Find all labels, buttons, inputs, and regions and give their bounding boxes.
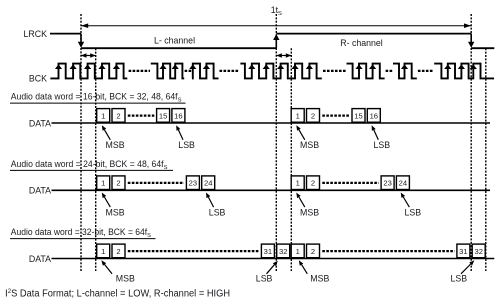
data bit box 32 (32-bit row) — [472, 244, 485, 258]
dotted continuation (32-bit row) — [128, 250, 259, 252]
BCK rising-edge arrow at x=461.4 — [458, 64, 465, 69]
BCK dotted continuation 5 — [386, 70, 393, 72]
data bit box 24 (24-bit row) — [202, 176, 215, 190]
data bit box 31 (32-bit row) — [457, 244, 470, 258]
BCK rising-edge arrow at x=280.6 — [277, 64, 284, 69]
BCK rising-edge arrow at x=404.5 — [401, 64, 408, 69]
svg-text:1: 1 — [101, 111, 105, 120]
svg-text:2: 2 — [311, 179, 315, 188]
svg-text:2: 2 — [311, 247, 315, 256]
data bit box 2 (24-bit row) — [307, 176, 320, 190]
data bit box 1 (16-bit row) — [97, 109, 110, 123]
dashed timing boundary line x=276.3 (LRCK rise, R-channel start) — [275, 14, 277, 271]
svg-text:2: 2 — [116, 179, 120, 188]
svg-text:1: 1 — [101, 179, 105, 188]
dimension line 1ts (one sample period) — [81, 25, 471, 27]
svg-text:L- channel: L- channel — [154, 36, 195, 46]
BCK rising-edge arrow at x=73.1 — [70, 64, 77, 69]
svg-text:16: 16 — [174, 111, 182, 120]
svg-text:1: 1 — [296, 111, 300, 120]
svg-text:LSB: LSB — [178, 140, 195, 150]
svg-text:MSB: MSB — [116, 274, 135, 284]
BCK dotted continuation 4 — [323, 70, 346, 72]
BCK rising-edge arrow at x=309.4 — [306, 64, 313, 69]
BCK dotted continuation 2 — [185, 70, 192, 72]
LRCK rising edge arrow at x=276.3 — [275, 38, 277, 48]
DATA line (16-bit row) — [52, 122, 491, 124]
one-BCK delay dimension arrow (left) — [81, 55, 96, 57]
data bit box 16 (16-bit row) — [367, 109, 380, 123]
svg-text:23: 23 — [383, 179, 391, 188]
dashed data-delay line x=95.7 — [95, 48, 97, 271]
svg-text:16: 16 — [370, 111, 378, 120]
svg-text:1: 1 — [296, 179, 300, 188]
svg-text:24: 24 — [399, 179, 407, 188]
BCK waveform segment 1 — [50, 64, 127, 79]
LRCK falling edge arrow at x=471.2 — [470, 34, 472, 44]
LRCK falling edge arrow at x=81 — [80, 34, 82, 44]
svg-text:LRCK: LRCK — [24, 29, 48, 39]
svg-text:DATA: DATA — [29, 254, 51, 264]
BCK dotted continuation 1 — [129, 70, 150, 72]
data bit box 31 (32-bit row) — [261, 244, 274, 258]
dotted continuation (24-bit row) — [322, 182, 378, 184]
BCK waveform segment 2 — [151, 64, 184, 79]
svg-text:32: 32 — [279, 247, 287, 256]
BCK waveform segment 6 — [393, 64, 417, 79]
dashed timing boundary line x=471.2 (LRCK fall, sample end) — [470, 14, 472, 271]
data bit box 23 (24-bit row) — [381, 176, 394, 190]
LRCK low segment (L-channel) — [81, 47, 276, 49]
svg-text:LSB: LSB — [256, 274, 273, 284]
DATA line (32-bit row) — [52, 258, 495, 260]
svg-text:MSB: MSB — [300, 207, 319, 217]
DATA line (24-bit row) — [52, 189, 491, 191]
data bit box 15 (16-bit row) — [157, 109, 170, 123]
data bit box 1 (24-bit row) — [291, 176, 304, 190]
data bit box 24 (24-bit row) — [396, 176, 409, 190]
BCK dotted continuation 3 — [220, 70, 240, 72]
svg-text:31: 31 — [264, 247, 272, 256]
LRCK trailing low segment — [471, 47, 494, 49]
svg-text:MSB: MSB — [300, 140, 319, 150]
svg-text:LSB: LSB — [209, 207, 226, 217]
data bit box 2 (32-bit row) — [307, 244, 320, 258]
data bit box 15 (16-bit row) — [352, 109, 365, 123]
dotted continuation (32-bit row) — [322, 250, 454, 252]
BCK waveform segment 7 — [434, 64, 494, 79]
svg-text:LSB: LSB — [374, 140, 391, 150]
data bit box 23 (24-bit row) — [186, 176, 199, 190]
data bit box 1 (16-bit row) — [291, 109, 304, 123]
one-BCK delay dimension arrow (middle) — [276, 55, 291, 57]
data bit box 32 (32-bit row) — [277, 244, 290, 258]
data bit box 2 (16-bit row) — [112, 109, 125, 123]
dashed data-delay line x=291.3 — [290, 48, 292, 271]
data bit box 1 (24-bit row) — [97, 176, 110, 190]
svg-text:MSB: MSB — [106, 140, 125, 150]
dashed timing boundary line x=81 (LRCK fall, sample start) — [80, 14, 82, 271]
dotted continuation (16-bit row) — [322, 114, 349, 116]
BCK rising-edge arrow at x=447.8 — [444, 64, 451, 69]
svg-text:15: 15 — [354, 111, 362, 120]
BCK waveform segment 3 — [192, 64, 219, 79]
svg-text:MSB: MSB — [106, 207, 125, 217]
svg-text:1: 1 — [101, 247, 105, 256]
BCK rising-edge arrow at x=87.6 — [84, 64, 91, 69]
BCK waveform segment 5 — [347, 64, 385, 79]
BCK rising-edge arrow at x=266.2 — [263, 64, 270, 69]
dashed data-delay line x=485.8 — [485, 48, 487, 271]
BCK rising-edge arrow at x=206.4 — [203, 64, 210, 69]
BCK rising-edge arrow at x=372.6 — [369, 64, 376, 69]
svg-text:MSB: MSB — [310, 274, 329, 284]
BCK rising-edge arrow at x=116.4 — [113, 64, 120, 69]
LRCK high segment (R-channel) — [276, 33, 471, 35]
BCK waveform segment 4 — [240, 64, 321, 79]
data bit box 1 (32-bit row) — [97, 244, 110, 258]
BCK dotted continuation 6 — [418, 70, 434, 72]
svg-text:32: 32 — [474, 247, 482, 256]
svg-text:Audio data word = 32-bit, BCK: Audio data word = 32-bit, BCK = 64fS — [11, 227, 151, 239]
svg-text:31: 31 — [459, 247, 467, 256]
svg-text:LSB: LSB — [451, 274, 468, 284]
svg-text:24: 24 — [204, 179, 212, 188]
svg-text:15: 15 — [159, 111, 167, 120]
BCK rising-edge arrow at x=192.8 — [189, 64, 196, 69]
svg-text:Audio data word = 16-bit, BCK: Audio data word = 16-bit, BCK = 32, 48, … — [11, 92, 182, 104]
BCK rising-edge arrow at x=58.5 — [55, 64, 62, 69]
svg-text:1: 1 — [296, 247, 300, 256]
BCK rising-edge arrow at x=473.3 — [470, 64, 477, 69]
svg-text:2: 2 — [116, 111, 120, 120]
svg-text:DATA: DATA — [29, 118, 51, 128]
svg-text:DATA: DATA — [29, 186, 51, 196]
svg-text:BCK: BCK — [29, 73, 47, 83]
BCK rising-edge arrow at x=251.8 — [248, 64, 255, 69]
BCK rising-edge arrow at x=102 — [98, 64, 105, 69]
data bit box 2 (32-bit row) — [112, 244, 125, 258]
dotted continuation (24-bit row) — [128, 182, 184, 184]
dotted continuation (16-bit row) — [128, 114, 155, 116]
BCK rising-edge arrow at x=359 — [355, 64, 362, 69]
svg-text:23: 23 — [189, 179, 197, 188]
BCK rising-edge arrow at x=295 — [291, 64, 298, 69]
LRCK waveform: high segment — [50, 33, 81, 35]
svg-text:R- channel: R- channel — [340, 38, 383, 48]
svg-text:2: 2 — [116, 247, 120, 256]
data bit box 2 (24-bit row) — [112, 176, 125, 190]
data bit box 16 (16-bit row) — [172, 109, 185, 123]
svg-text:Audio data word = 24-bit, BCK: Audio data word = 24-bit, BCK = 48, 64fS — [11, 159, 168, 171]
data bit box 2 (16-bit row) — [307, 109, 320, 123]
svg-text:2: 2 — [311, 111, 315, 120]
data bit box 1 (32-bit row) — [291, 244, 304, 258]
svg-text:I2S Data Format; L-channel = L: I2S Data Format; L-channel = LOW, R-chan… — [5, 289, 230, 300]
BCK rising-edge arrow at x=175.2 — [172, 64, 179, 69]
svg-text:LSB: LSB — [405, 207, 422, 217]
BCK rising-edge arrow at x=163 — [159, 64, 166, 69]
